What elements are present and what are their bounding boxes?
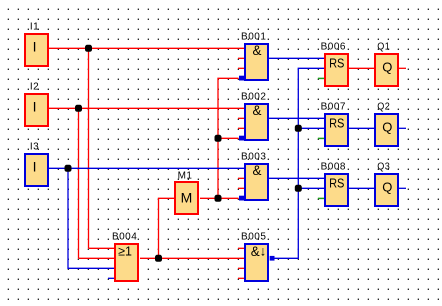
svg-text:&: & [253, 43, 262, 58]
svg-text:I: I [33, 158, 37, 174]
svg-text:Q2: Q2 [377, 101, 390, 112]
svg-text:&: & [253, 163, 262, 178]
svg-text:Q: Q [382, 119, 392, 134]
svg-text:B004: B004 [112, 231, 137, 242]
svg-text:I3: I3 [30, 141, 39, 152]
svg-text:M: M [181, 189, 193, 205]
svg-text:Q: Q [382, 179, 392, 194]
svg-text:I: I [33, 38, 37, 54]
svg-text:B005: B005 [241, 231, 266, 242]
svg-text:B003: B003 [241, 151, 266, 162]
svg-text:B008: B008 [321, 161, 346, 172]
svg-text:RS: RS [329, 176, 345, 191]
svg-text:Q: Q [382, 59, 392, 74]
svg-text:B001: B001 [241, 31, 266, 42]
svg-text:B007: B007 [321, 101, 346, 112]
svg-text:&: & [251, 244, 260, 259]
svg-text:RS: RS [329, 116, 345, 131]
svg-text:I1: I1 [30, 21, 39, 32]
svg-text:I: I [33, 98, 37, 114]
svg-text:I2: I2 [30, 81, 39, 92]
svg-text:≥1: ≥1 [118, 244, 132, 259]
svg-text:Q3: Q3 [377, 161, 390, 172]
svg-text:B006: B006 [321, 41, 346, 52]
svg-text:B002: B002 [241, 91, 266, 102]
svg-text:Q1: Q1 [377, 41, 390, 52]
svg-text:&: & [253, 103, 262, 118]
svg-text:M1: M1 [178, 170, 193, 181]
svg-text:RS: RS [329, 56, 345, 71]
svg-text:↓: ↓ [260, 244, 267, 259]
